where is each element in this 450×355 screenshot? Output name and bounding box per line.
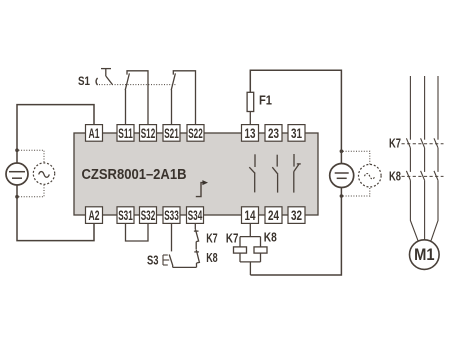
svg-text:S33: S33: [164, 208, 179, 223]
three phase line L1: [410, 76, 418, 241]
terminal S21: [163, 125, 180, 142]
svg-text:K8: K8: [264, 229, 277, 244]
terminal 14: [242, 207, 259, 224]
svg-text:24: 24: [268, 208, 279, 223]
terminal 13: [242, 125, 259, 142]
terminal S31: [117, 207, 134, 224]
K7 contacts label and linkage: [389, 136, 444, 151]
mechanical linkage dotted line: [99, 84, 176, 86]
svg-text:S3: S3: [147, 253, 159, 268]
three phase line L3: [431, 76, 438, 241]
svg-text:K8: K8: [389, 168, 401, 183]
wire DC supply to A2 (bottom left loop): [17, 185, 94, 241]
coil return wire: [240, 262, 261, 275]
svg-text:S21: S21: [164, 126, 179, 141]
S3 NO contact wire from S33: [169, 224, 173, 268]
fuse F1: [247, 92, 254, 111]
svg-text:M1: M1: [414, 246, 434, 264]
emergency stop mushroom head: [101, 69, 112, 85]
internal NO contact 13-14: [249, 154, 255, 192]
svg-text:S22: S22: [188, 126, 203, 141]
junction node left bottom: [15, 195, 19, 199]
wire A1 to DC supply (top left loop): [17, 105, 94, 164]
svg-text:31: 31: [291, 126, 302, 141]
svg-text:F1: F1: [259, 92, 272, 107]
svg-text:S34: S34: [188, 208, 203, 223]
wire right supply to coil return: [250, 188, 341, 275]
S1 NC contact S11-S12: [125, 71, 148, 125]
relay model label: [82, 167, 187, 183]
svg-text:S32: S32: [141, 208, 156, 223]
motor M1: [410, 240, 440, 270]
svg-text:23: 23: [268, 126, 279, 141]
dotted link to AC alternative left: [19, 150, 45, 197]
svg-text:S11: S11: [118, 126, 133, 141]
coil K7 label: [226, 230, 239, 245]
terminal 31: [288, 125, 305, 142]
terminal S34: [187, 207, 204, 224]
aux contact K7 label: [206, 231, 218, 246]
link wire S31-S32: [126, 224, 149, 242]
coil K8 label: [264, 229, 277, 244]
terminal S33: [163, 207, 180, 224]
terminal 32: [288, 207, 305, 224]
svg-text:K7: K7: [226, 230, 239, 245]
emergency stop S1 label: [78, 74, 90, 88]
svg-text:K7: K7: [389, 136, 401, 151]
AC source alternative left (dashed circle): [33, 163, 54, 184]
terminal S12: [140, 125, 157, 142]
terminal S22: [187, 125, 204, 142]
sine symbol in left AC source: [39, 172, 50, 178]
dotted link to AC alternative right: [343, 151, 370, 196]
svg-text:A1: A1: [89, 126, 100, 141]
svg-text:CZSR8001–2A1B: CZSR8001–2A1B: [82, 167, 187, 183]
AC source alternative right (dashed circle): [359, 164, 382, 187]
svg-text:13: 13: [245, 126, 256, 141]
DC supply source right: [330, 164, 354, 188]
terminal S32: [140, 207, 157, 224]
S1 NC contact S21-S22: [171, 71, 195, 125]
feedback loop wire S33 to S34: [173, 266, 197, 268]
terminal 24: [265, 207, 282, 224]
fuse F1 label: [259, 92, 272, 107]
contactor K7 main contacts: [406, 138, 438, 148]
svg-text:32: 32: [291, 208, 302, 223]
svg-text:S1: S1: [78, 74, 90, 88]
internal NO contact 23-24: [272, 155, 278, 193]
svg-text:A2: A2: [89, 208, 100, 223]
terminal 23: [265, 125, 282, 142]
actuation arrow symbol inside relay: [196, 180, 208, 197]
svg-text:14: 14: [245, 208, 256, 223]
aux contact K7 (NO) on S34: [194, 224, 199, 250]
sine symbol in right AC source: [365, 174, 375, 179]
relay module body CZSR8001-2A1B: [74, 133, 318, 215]
wire 14 to coils: [240, 224, 261, 237]
junction node left top: [15, 148, 19, 152]
contactor K8 main contacts: [406, 171, 438, 180]
reset switch S3 label: [147, 253, 159, 268]
internal NC contact 31-32: [294, 154, 301, 193]
emergency stop actuator arc: [96, 78, 98, 85]
terminal S11: [117, 125, 134, 142]
terminal A1: [86, 125, 103, 142]
aux contact K8 label: [206, 250, 218, 265]
junction node right bottom: [340, 194, 344, 198]
junction node right top: [340, 149, 344, 153]
contactor coil K8: [254, 237, 267, 262]
K8 contacts label and linkage: [389, 168, 444, 183]
DC supply source G1 left: [6, 163, 28, 185]
svg-text:S12: S12: [141, 126, 156, 141]
aux contact K8 (NO) on S34: [194, 250, 199, 268]
wire 13 to F1 and right supply: [250, 70, 341, 163]
svg-text:S31: S31: [118, 208, 133, 223]
terminal A2: [86, 207, 103, 224]
S3 manual actuator: [163, 255, 169, 265]
svg-text:K8: K8: [206, 250, 218, 265]
contactor coil K7: [234, 237, 247, 262]
svg-text:K7: K7: [206, 231, 218, 246]
three phase line L2: [424, 76, 426, 240]
